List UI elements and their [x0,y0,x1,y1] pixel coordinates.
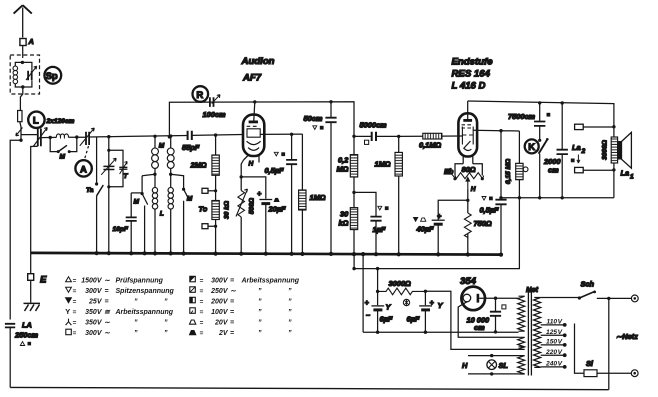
svg-text:=: = [105,299,109,306]
capacitor 10000cm [495,298,497,332]
svg-text:3000Ω: 3000Ω [602,139,609,160]
svg-text:A: A [80,164,87,175]
svg-text:R: R [196,90,203,101]
svg-text:Y: Y [65,307,70,316]
svg-text:SL: SL [499,361,509,370]
heater wires H [468,356,519,374]
svg-text:Spitzenspannung: Spitzenspannung [116,288,175,295]
svg-text:240 V: 240 V [545,361,563,368]
terminal La2 lower [575,167,584,172]
svg-text:A: A [28,37,34,46]
svg-text:”: ” [258,288,262,295]
svg-text:La: La [621,169,630,178]
potentiometer 500 ohm [240,177,242,254]
primary taps [541,325,565,367]
svg-text:55pF: 55pF [182,143,200,152]
switch K [538,139,541,142]
wire node to tuning cap [21,134,38,136]
svg-text:=: = [200,299,204,306]
main grid wire (sloped) [41,135,243,138]
svg-text:+: + [257,189,262,198]
svg-text:=: = [73,320,77,327]
node 6uF no2 [424,290,427,293]
capacitor 5000cm coupling [354,135,399,137]
capacitor 2000cm [561,103,563,198]
switch Sch [541,297,579,299]
mark 20uF [274,198,279,201]
antenna [14,5,32,37]
terminal To upper [208,190,216,192]
svg-text:kΩ: kΩ [339,219,349,228]
wire Sch junction to bottom rail [608,298,610,389]
svg-text:RES 164: RES 164 [452,69,491,80]
svg-text:=: = [230,320,234,327]
marks 50cm [313,126,317,130]
wire cathode to 20uF [241,177,266,254]
coil shorting switch M [50,137,77,152]
node 50cm on rail [329,100,332,103]
wire bus to PSU ground [362,254,364,332]
svg-text:K: K [528,142,535,153]
svg-text:0,5µF: 0,5µF [480,206,500,215]
switch Ta [96,137,98,253]
resistor 0,2M [350,155,357,177]
svg-text:M: M [134,199,140,206]
svg-text:”: ” [258,299,262,306]
node grid wire at x170.7 [169,134,172,137]
svg-text:Audion: Audion [241,56,275,67]
svg-text:40µF: 40µF [416,225,434,234]
capacitor LA 250cm [5,324,15,328]
svg-text:∼Netz: ∼Netz [616,332,638,341]
svg-text:To: To [199,205,208,214]
chassis bus [31,253,502,255]
tube RES164 envelope [467,101,469,120]
transformer HV winding [518,296,525,331]
svg-text:”: ” [134,320,138,327]
resistor 2M [215,135,217,155]
svg-text:=: = [200,320,204,327]
svg-text:250cm: 250cm [14,331,38,340]
tuning capacitor A gang [86,132,89,145]
node antenna coil bottom [19,139,22,142]
svg-text:=: = [73,278,77,285]
svg-text:=: = [200,330,204,337]
circle label Sp [44,67,61,84]
tuning capacitor L 2x120cm [38,129,41,147]
mark 5000cm [365,140,369,144]
svg-text:=: = [73,288,77,295]
svg-text:–: – [366,311,370,320]
svg-text:Endstufe: Endstufe [452,57,494,68]
svg-text:E: E [40,275,47,286]
node grid resistor RES164 [397,135,400,138]
svg-text:”: ” [164,299,168,306]
legend voltage key [65,276,299,337]
capacitor 10pF [130,193,132,253]
wire to LA branch [10,140,21,319]
legend symbol triangle down filled [66,298,72,303]
trimmer 100cm [210,97,214,107]
svg-text:H: H [462,361,468,370]
svg-text:=: = [230,330,234,337]
svg-text:L 416 D: L 416 D [452,81,486,92]
svg-text:1: 1 [630,174,634,181]
svg-text:La: La [572,143,581,152]
switch M left (with 10pF tap) [141,192,144,195]
capacitor 0,5uF (AF7 anode) [291,134,293,254]
circle label L [28,112,44,128]
trimmer pair wires [109,137,123,254]
svg-text:MΩ: MΩ [337,165,349,174]
ground link wire [354,198,519,269]
svg-text:25V: 25V [88,299,103,306]
wire trap to coupling coil [20,87,22,111]
terminal La2 upper [575,124,584,129]
AF7 heater legs [244,155,260,163]
tap labels [545,319,563,368]
svg-text:=: = [230,278,234,285]
capacitor 7500cm [539,103,541,140]
svg-text:2: 2 [581,148,586,155]
mains terminal upper [631,295,638,302]
svg-text:=: = [200,278,204,285]
svg-text:”: ” [258,330,262,337]
svg-text:30: 30 [340,210,349,219]
circle label K [525,139,539,153]
svg-text:=: = [200,309,204,316]
svg-text:”: ” [258,309,262,316]
transformer core [528,289,531,376]
capacitor 55pF [188,131,192,140]
svg-text:7500cm: 7500cm [508,112,536,121]
wire tuning cap rotor to chassis [31,146,38,253]
mark 7500cm [547,113,551,117]
decoupling chain wire [353,136,355,254]
resistor 0,1M grid stopper [399,135,463,137]
AF7 internals [249,121,258,124]
AF7 cathode lead [241,160,243,177]
top rail left (regeneration) [169,102,354,137]
pilot lamp SL [487,360,497,370]
trimmer capacitor 2 T [119,167,127,169]
wiper arrow H [466,178,469,190]
mark 10000cm [502,305,506,309]
resistor 3000 ohm (speaker field) [611,137,617,163]
wiper line down [467,190,469,255]
rectifier cathode lead [458,302,518,338]
earth terminal E [30,253,32,303]
svg-text:300V: 300V [211,278,229,285]
marker O [523,167,528,172]
resistor 3000 ohm filter [378,288,426,295]
resistor 30k (grid chain) [212,201,219,220]
svg-text:M: M [187,196,193,203]
transformer primary winding [534,298,541,368]
svg-text:”: ” [288,288,292,295]
resistor 750 ohm [464,213,471,238]
svg-text:350V: 350V [85,320,103,327]
PSU ground wire [363,331,518,333]
resistor 30k (decoupling) [350,208,357,230]
svg-text:300V: 300V [85,288,103,295]
legend symbol square left filled [190,297,196,303]
svg-text:6µF: 6µF [380,315,393,324]
svg-text:0,5µF: 0,5µF [265,166,285,175]
wires L coils to bus [155,209,171,253]
terminal A (antenna binding post) [20,39,26,46]
svg-text:150 V: 150 V [546,339,563,346]
mark circled star [403,299,409,305]
filament bracket to pot [455,164,482,176]
resistor 1M (AF7 anode load) [301,134,303,190]
svg-text:10pF: 10pF [113,226,129,233]
svg-text:200V: 200V [210,299,229,306]
legend symbol square [66,329,72,335]
wire down to M coils [155,136,171,148]
svg-text:+: + [430,298,435,307]
dashed box (antenna trap Sp) [10,55,39,94]
svg-text:0,2: 0,2 [338,156,349,165]
RES164 filament legs [463,156,473,164]
svg-text:5000cm: 5000cm [360,121,388,130]
transformer heater winding [518,356,525,374]
wire below coupling coil [20,122,21,141]
node 7500cm on rail [538,101,541,104]
svg-text:”: ” [288,320,292,327]
svg-text:100V: 100V [211,309,229,316]
legend symbol tent [190,320,196,324]
variable coupling arrow [16,128,23,136]
node trimmer branch [107,135,110,138]
bottom rail [10,387,609,389]
node AF7 top cap [253,100,256,103]
svg-text:1µF: 1µF [373,225,386,234]
legend symbol square half filled [190,276,196,282]
svg-text:110 V: 110 V [547,319,563,326]
svg-text:Arbeitsspannung: Arbeitsspannung [115,309,174,316]
coil M left [152,148,159,168]
trap variable capacitor [28,71,32,80]
voltage selector wire [575,324,585,374]
electrolytic 20uF [259,199,272,201]
wire 10pF to switch [131,192,142,194]
wire 2M to To terminal [215,175,217,200]
loudspeaker La1 [618,141,622,160]
wire coil junction to M switch left [142,174,155,175]
svg-text:H: H [471,186,476,193]
svg-text:M: M [159,143,165,150]
svg-text:H: H [249,161,254,168]
legend symbol triangle down [66,287,72,292]
svg-text:”: ” [258,320,262,327]
node right of coil [75,135,78,138]
svg-text:50cm: 50cm [304,114,323,123]
svg-text:6µF: 6µF [407,315,420,324]
svg-text:3000Ω: 3000Ω [389,279,411,288]
legend symbol tent filled [190,331,196,335]
earth ground symbol [24,303,41,311]
svg-text:L: L [33,116,39,127]
svg-text:0,15 MΩ: 0,15 MΩ [505,158,512,184]
voltage marks LA [20,342,24,346]
mains terminal lower [631,370,638,377]
coil L right [168,188,173,210]
trap coil 1000 [13,66,18,84]
terminal To lower [208,220,216,254]
resistor 1M (RES164 grid) [398,136,400,254]
output bottom wire [501,197,614,199]
svg-text:100cm: 100cm [203,110,226,119]
potentiometer 80 ohm Eb [455,173,484,179]
node grid junction 2M [214,133,217,136]
svg-text:1MΩ: 1MΩ [310,193,326,202]
top rail right [468,101,614,137]
electrolytic 6uF no1 [371,305,384,307]
svg-text:=: = [73,309,77,316]
B+ wire to heater winding [425,291,518,349]
svg-text:Arbeitsspannung: Arbeitsspannung [241,278,300,285]
svg-text:250V: 250V [210,288,229,295]
svg-text:30 kΩ: 30 kΩ [224,200,231,219]
svg-text:M: M [60,154,66,161]
marks 40uF [414,218,418,222]
svg-text:cm: cm [548,166,559,175]
svg-text:”: ” [134,299,138,306]
svg-text:20V: 20V [214,320,229,327]
svg-text:500Ω: 500Ω [249,197,256,214]
RES164 anode wire [473,129,519,132]
svg-text:1500V: 1500V [81,278,103,285]
svg-text:0,1MΩ: 0,1MΩ [419,141,441,150]
svg-text:LA: LA [22,321,32,330]
svg-text:=: = [73,330,77,337]
circle label R [193,86,209,102]
mark 2000cm [571,159,575,163]
svg-text:Sp: Sp [46,71,58,82]
svg-text:”: ” [164,320,168,327]
svg-text:Sch: Sch [581,280,595,289]
antenna coupling coil (rectangle winding) [18,111,22,122]
svg-text:+: + [437,212,442,221]
node 2000cm on rail [561,101,564,104]
svg-text:”: ” [164,330,168,337]
svg-text:Prüfspannung: Prüfspannung [116,278,164,285]
coil M right [167,148,174,168]
capacitor 1uF [354,192,376,254]
svg-text:2V: 2V [218,330,229,337]
svg-text:=: = [230,299,234,306]
trap loop wires [15,62,32,87]
bus junction nodes [95,251,504,257]
svg-text:2MΩ: 2MΩ [190,161,207,170]
svg-text:20µF: 20µF [268,205,286,214]
switch M right [171,174,189,253]
svg-text:”: ” [288,299,292,306]
electrolytic 40uF [438,200,468,254]
svg-text:”: ” [134,330,138,337]
gang link dashed [84,146,89,161]
nodes below M coils [155,168,171,187]
circle label A [75,160,91,176]
svg-text:=: = [230,309,234,316]
resistor 0,15M [518,131,520,198]
coil L left [152,188,157,210]
rectifier anode lead [479,297,495,299]
svg-text:L: L [160,211,164,218]
capacitor 0,5uF output [500,131,502,255]
node left of coil [49,136,52,139]
svg-text:750Ω: 750Ω [474,219,492,228]
wire antenna to trap [22,46,24,59]
fuse Si [584,370,597,377]
legend symbol square diagonal [190,287,196,293]
legend symbol triangle up [66,277,72,282]
svg-text:80Ω: 80Ω [462,165,476,174]
node top of trap [21,61,24,64]
filter cap feed wire [377,269,379,333]
svg-text:Si: Si [586,359,594,368]
svg-text:Ta: Ta [86,187,94,194]
svg-text:+: + [365,298,370,307]
svg-text:125 V: 125 V [546,329,563,336]
series coil in antenna lead [56,134,68,137]
node bottom of trap [21,85,24,88]
marks 1uF [378,206,382,210]
svg-text:2x120cm: 2x120cm [46,118,75,125]
svg-text:cm: cm [474,323,485,332]
tube AF7 envelope [254,102,255,121]
svg-text:=: = [200,288,204,295]
trimmer capacitor 1 [103,166,114,169]
svg-text:350V: 350V [85,309,103,316]
svg-text:300V: 300V [85,330,103,337]
AF7 anode wire [260,133,302,135]
svg-text:=: = [73,299,77,306]
transformer rectifier filament winding [512,337,524,349]
svg-text:Net: Net [526,285,538,294]
svg-text:AF7: AF7 [242,73,262,84]
marks 0,5uF [274,152,278,156]
svg-text:”: ” [288,330,292,337]
svg-text:=: = [105,288,109,295]
marks 0,5uF output [482,197,486,201]
svg-text:1MΩ: 1MΩ [375,160,391,169]
electrolytic 6uF no2 [419,305,432,307]
legend symbol inverted Y [66,319,72,326]
legend symbol square ticked [190,308,196,314]
capacitor 50cm [330,102,332,254]
node junction 1uF tap [352,191,355,194]
node grid wire at x155 [153,135,156,138]
svg-text:”: ” [288,309,292,316]
svg-text:220 V: 220 V [545,349,563,356]
RES164 internals [463,119,472,122]
